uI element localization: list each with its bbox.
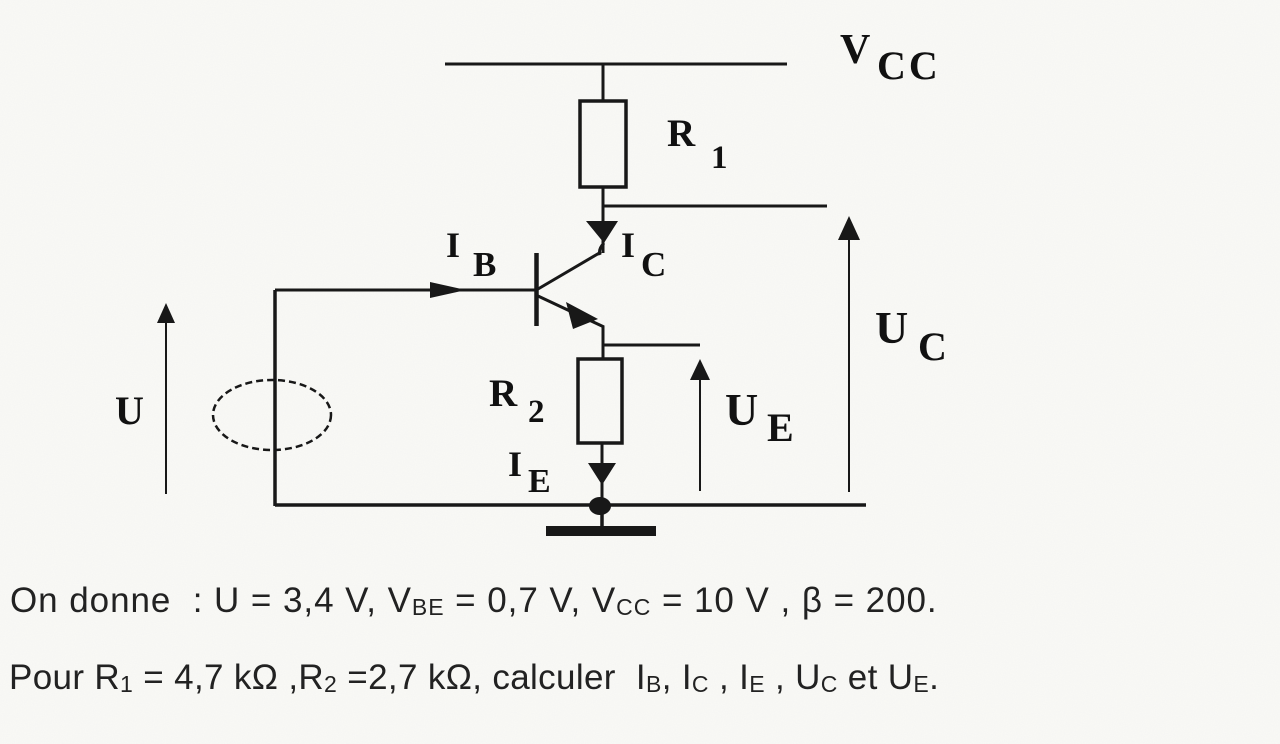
text line 2: [9, 658, 939, 697]
svg-text:E: E: [528, 463, 551, 500]
wire bottom rail: [275, 503, 866, 507]
svg-text:I: I: [446, 225, 460, 265]
svg-text:1: 1: [711, 140, 728, 176]
current arrow IB: [430, 282, 466, 298]
wire R2 bottom to ground node: [601, 443, 604, 505]
wire left vertical through source: [273, 290, 277, 506]
svg-text:U: U: [725, 384, 758, 435]
current arrow IC: [586, 221, 618, 255]
arrow UE: [690, 359, 710, 491]
svg-text:I: I: [508, 444, 522, 484]
wire Vcc rail to R1 top: [602, 64, 605, 102]
junction ground node: [589, 497, 611, 515]
svg-text:E: E: [767, 405, 794, 450]
label R2 value: [489, 372, 545, 430]
label IC: [621, 225, 666, 284]
svg-text:C: C: [918, 324, 947, 369]
svg-text:2: 2: [528, 394, 545, 430]
ground: [546, 506, 656, 536]
label IE: [508, 444, 551, 500]
svg-text:R: R: [489, 372, 518, 415]
current arrow IE: [588, 463, 616, 485]
label IB: [446, 225, 496, 284]
label U: [115, 388, 144, 433]
label R1 value: [667, 112, 728, 176]
resistor R1: [580, 101, 626, 187]
arrow UC: [838, 216, 860, 492]
wire Vcc top rail: [445, 63, 787, 66]
svg-text:CC: CC: [877, 43, 941, 88]
resistor R2: [578, 359, 622, 443]
svg-text:On donne : U = 3,4 V, VBE = 0: On donne : U = 3,4 V, VBE = 0,7 V, VCC =…: [10, 581, 938, 620]
svg-text:B: B: [473, 245, 496, 284]
svg-text:R: R: [667, 112, 696, 155]
wire emitter node horizontal: [603, 344, 700, 347]
svg-text:Pour R1 = 4,7 kΩ ,R2 =2,7 kΩ,: Pour R1 = 4,7 kΩ ,R2 =2,7 kΩ, calculer I…: [9, 658, 939, 697]
text line 1: [10, 581, 938, 620]
svg-text:C: C: [641, 245, 666, 284]
wire R1 bottom to collector: [602, 187, 605, 253]
wire collector node horizontal: [603, 205, 827, 208]
svg-text:V: V: [840, 27, 870, 73]
wire emitter vertical to R2: [602, 326, 605, 360]
svg-text:I: I: [621, 225, 635, 265]
arrow U: [157, 303, 175, 494]
label UE: [725, 384, 794, 450]
label UC: [875, 302, 947, 369]
svg-text:U: U: [875, 302, 908, 353]
svg-text:U: U: [115, 388, 144, 433]
voltage source U (ellipse): [213, 380, 331, 450]
node Vcc label: [840, 27, 941, 88]
transistor Q1: [537, 252, 605, 329]
wire base: [275, 289, 535, 292]
